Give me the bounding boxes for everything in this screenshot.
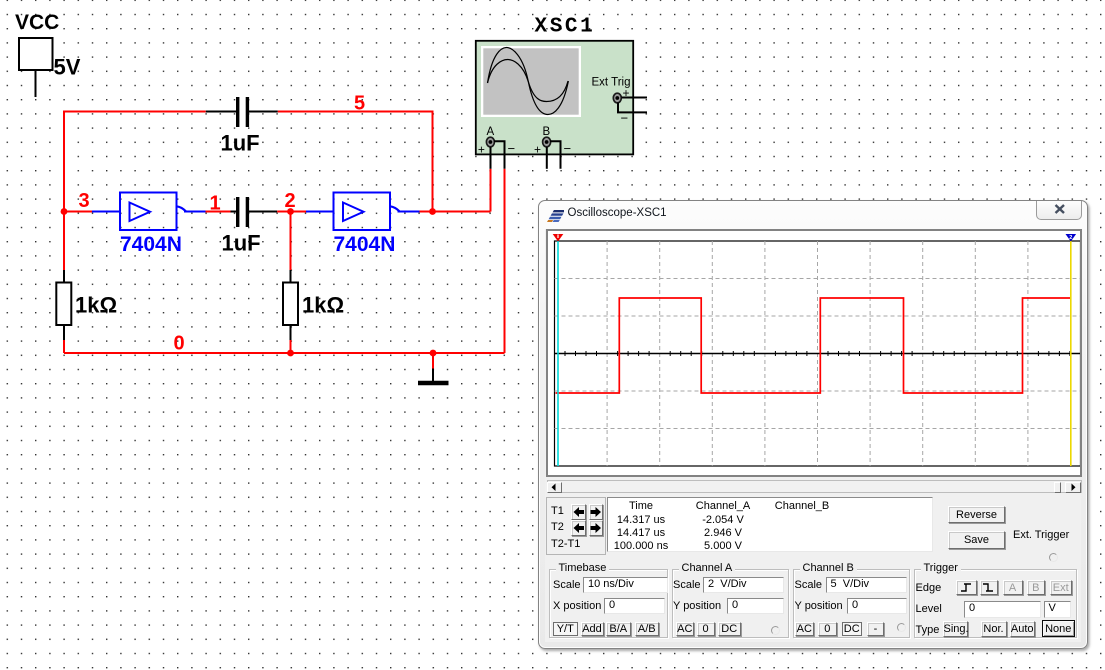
svg-text:1kΩ: 1kΩ — [75, 293, 117, 318]
wire net2 — [277, 212, 306, 354]
svg-text:1kΩ: 1kΩ — [302, 293, 344, 318]
svg-text:5V: 5V — [54, 55, 81, 80]
svg-text:7404N: 7404N — [334, 233, 396, 256]
svg-text:VCC: VCC — [15, 11, 59, 34]
svg-text:2: 2 — [1069, 235, 1072, 241]
svg-text:0: 0 — [174, 333, 185, 355]
Channel A group — [672, 569, 790, 638]
terminal Ext Trig — [613, 93, 647, 112]
junction node gnd — [430, 350, 437, 357]
junction output node — [429, 208, 436, 215]
terminal B — [543, 137, 561, 169]
svg-text:−: − — [621, 111, 629, 126]
wire net3 segments — [64, 212, 92, 354]
svg-text:3: 3 — [79, 190, 90, 212]
icon sine big — [488, 48, 569, 115]
wire net4 output to scope — [420, 169, 505, 353]
svg-text:+: + — [478, 143, 485, 157]
junction node 2 — [287, 208, 294, 215]
terminal A — [486, 137, 504, 169]
svg-text:XSC1: XSC1 — [535, 16, 596, 39]
resistor R2 1kOhm — [283, 270, 298, 340]
icon sine small — [488, 60, 569, 102]
Channel B group — [793, 569, 911, 638]
Trigger group — [914, 569, 1077, 638]
svg-text:+: + — [534, 143, 541, 157]
svg-text:1uF: 1uF — [221, 131, 260, 156]
resistor R1 1kOhm — [56, 270, 71, 340]
capacitor C2 1uF (middle) — [231, 197, 278, 227]
junction node 3 — [61, 208, 68, 215]
inverter U2 7404N — [306, 193, 420, 231]
Timebase group — [549, 569, 669, 638]
svg-text:7404N: 7404N — [120, 233, 182, 256]
capacitor C1 1uF (top) — [206, 97, 278, 127]
svg-text:A: A — [487, 126, 495, 138]
oscilloscope instrument XSC1 — [476, 41, 633, 155]
svg-text:1uF: 1uF — [222, 231, 261, 256]
ground GND — [418, 369, 449, 384]
wire net1 — [206, 211, 231, 213]
svg-text:−: − — [508, 141, 516, 156]
wire net5 top — [64, 112, 433, 271]
svg-text:+: + — [623, 86, 630, 100]
inverter U1 7404N — [92, 193, 206, 231]
wire net0 ground bus — [64, 352, 505, 354]
svg-text:1: 1 — [210, 193, 221, 215]
svg-text:B: B — [543, 126, 551, 138]
VCC power symbol V1 — [19, 38, 53, 97]
junction node R2-gnd — [287, 350, 294, 357]
svg-text:5: 5 — [354, 93, 365, 115]
svg-text:−: − — [564, 141, 572, 156]
ground red stub — [432, 353, 434, 369]
oscilloscope window Oscilloscope-XSC1 — [538, 200, 1088, 649]
